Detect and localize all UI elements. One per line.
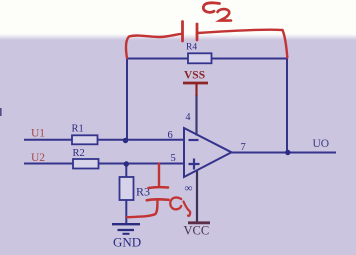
capacitor C2 left lead (red annotation) [126, 34, 181, 58]
resistor R1 [72, 124, 98, 145]
wire feedback left vertical [126, 59, 128, 141]
svg-text:4: 4 [186, 112, 191, 123]
capacitor C1 bottom plate [147, 199, 169, 200]
wire pin 4 stem [195, 95, 197, 136]
wire U2 input row (pin 5 net) [24, 163, 184, 165]
wire feedback right vertical [286, 59, 288, 153]
power VSS symbol [183, 70, 208, 97]
node B junction dot row2 [124, 161, 129, 166]
wire R3 bottom lead to ground [125, 200, 127, 224]
lavender page background [0, 34, 356, 40]
svg-text:VCC: VCC [184, 224, 210, 238]
svg-text:U1: U1 [31, 127, 45, 139]
op-amp U1 triangle [184, 128, 232, 177]
svg-text:R1: R1 [72, 124, 84, 135]
svg-text:GND: GND [113, 235, 141, 250]
svg-text:7: 7 [241, 142, 246, 153]
power VCC symbol [184, 223, 211, 238]
op-amp plus sign [189, 159, 200, 170]
wire U1 input row (pin 6 net) [24, 139, 184, 141]
wire pin VCC stem [196, 170, 198, 222]
wire output pin 7 [232, 152, 337, 154]
op-amp minus sign [189, 139, 199, 141]
svg-text:R4: R4 [186, 43, 197, 53]
svg-text:5: 5 [171, 153, 176, 164]
svg-text:R2: R2 [73, 148, 85, 159]
resistor R4 [186, 43, 212, 64]
wire R3 top lead [125, 164, 127, 178]
capacitor C1 bottom lead [127, 201, 158, 218]
svg-text:VSS: VSS [184, 70, 205, 82]
resistor R3 [120, 177, 151, 200]
node A junction dot row1 [123, 138, 128, 143]
capacitor C1 top plate [149, 186, 169, 189]
svg-text:R3: R3 [136, 185, 150, 199]
left edge artifact [0, 108, 2, 116]
svg-text:U2: U2 [31, 152, 45, 164]
capacitor C2 left plate [181, 22, 184, 42]
resistor R2 [73, 148, 99, 169]
svg-text:UO: UO [313, 138, 330, 150]
wire feedback top [127, 58, 287, 60]
svg-text:6: 6 [168, 130, 173, 141]
ground [112, 224, 141, 249]
node C junction dot output [285, 150, 290, 155]
white header strip [0, 0, 356, 34]
capacitor C2 right lead [198, 30, 287, 58]
svg-text:∞: ∞ [185, 183, 193, 195]
C2 handwritten label [203, 3, 219, 12]
C1 handwritten label [170, 197, 181, 209]
capacitor C1 top lead (red annotation) [158, 164, 160, 186]
capacitor C2 right plate [196, 24, 199, 40]
